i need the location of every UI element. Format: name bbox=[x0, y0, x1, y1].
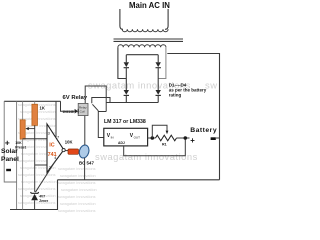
label 1K bbox=[40, 106, 45, 111]
wire op-amp pin 7 supply bbox=[55, 101, 57, 138]
svg-text:R1: R1 bbox=[162, 143, 167, 147]
preset P1 lead top bbox=[22, 101, 24, 120]
ground rail main bbox=[58, 179, 220, 181]
diode 1N4148 bbox=[75, 109, 79, 114]
wire op-amp pin 4 to ground bbox=[35, 160, 56, 192]
svg-text:swagatam innovation: swagatam innovation bbox=[20, 194, 56, 198]
svg-text:BC 547: BC 547 bbox=[79, 161, 94, 166]
op-amp U1 741 bbox=[47, 124, 64, 173]
wire op-amp pin 2 to zener bbox=[35, 164, 47, 166]
regulator U2 LM317 bbox=[104, 128, 148, 146]
svg-text:1N4148: 1N4148 bbox=[63, 110, 74, 114]
wire battery minus stub bbox=[215, 137, 220, 139]
wire bridge right column bbox=[157, 68, 159, 90]
wire bridge left column bbox=[125, 68, 127, 90]
svg-text:Zener: Zener bbox=[39, 199, 49, 203]
ground rail bottom-left bbox=[10, 180, 58, 210]
label D1-D4 bbox=[169, 82, 207, 97]
relay coil RL1 bbox=[78, 103, 88, 115]
wire R1 to battery plus bbox=[177, 137, 190, 139]
label 6V Relay bbox=[63, 95, 88, 101]
svg-text:swagatam innovation: swagatam innovation bbox=[21, 124, 57, 128]
wire bridge negative to battery minus bbox=[167, 54, 219, 180]
svg-text:ADJ: ADJ bbox=[118, 141, 125, 145]
wire emitter bbox=[84, 158, 86, 180]
wire panel minus down bbox=[16, 182, 18, 210]
node Vout junction bbox=[151, 136, 155, 140]
watermark mini block left bbox=[18, 103, 57, 205]
svg-text:Battery: Battery bbox=[190, 127, 217, 134]
label BC 547 bbox=[79, 161, 94, 166]
wire relay coil top loop bbox=[85, 86, 106, 112]
label Battery bbox=[190, 127, 217, 134]
transformer T1 secondary winding bbox=[118, 45, 166, 47]
svg-text:swagatam innovations: swagatam innovations bbox=[18, 173, 56, 177]
svg-text:swagatam innovations: swagatam innovations bbox=[58, 181, 96, 185]
diode D3 bbox=[124, 90, 129, 95]
wire secondary right to bridge AC node bbox=[158, 47, 166, 78]
potentiometer R1 bbox=[152, 125, 176, 141]
solar positive rail bbox=[4, 100, 60, 102]
svg-text:swagatam innovation: swagatam innovation bbox=[21, 180, 57, 184]
svg-text:Main AC IN: Main AC IN bbox=[129, 1, 170, 10]
preset P1 lead bottom bbox=[22, 139, 24, 209]
watermark row A bbox=[88, 80, 217, 91]
diode D1 bbox=[124, 62, 129, 67]
svg-text:swagatam innovation: swagatam innovation bbox=[60, 174, 96, 178]
svg-text:swagatam innovations: swagatam innovations bbox=[58, 167, 96, 171]
wire to op-amp pin 3 bbox=[23, 138, 47, 140]
watermark row B bbox=[95, 151, 198, 162]
svg-text:swagatam innovation: swagatam innovation bbox=[61, 188, 97, 192]
label 4V7 Zener bbox=[39, 195, 49, 203]
wire secondary left to bridge AC node bbox=[118, 47, 126, 78]
bridge top rail bbox=[126, 55, 158, 63]
wire relay pole to Vin bbox=[98, 111, 106, 138]
diode D4 bbox=[156, 90, 161, 95]
svg-text:+: + bbox=[190, 136, 195, 145]
label Main AC IN bbox=[129, 1, 170, 10]
resistor 1K body bbox=[32, 101, 38, 125]
watermark mini block center-bottom bbox=[58, 167, 97, 213]
op-amp output node bbox=[62, 149, 68, 152]
transformer T1 primary leads bbox=[120, 9, 168, 29]
diode D2 bbox=[156, 62, 161, 67]
label LM 317 or LM338 bbox=[104, 119, 146, 125]
svg-text:sw: sw bbox=[205, 80, 217, 91]
node battery plus junction bbox=[184, 136, 188, 140]
relay contact arm bbox=[92, 104, 98, 111]
svg-text:Coil: Coil bbox=[80, 110, 86, 114]
svg-text:1K: 1K bbox=[40, 106, 45, 111]
svg-text:Preset: Preset bbox=[15, 146, 27, 150]
transistor Q1 BC547 bbox=[78, 144, 91, 159]
svg-text:rating: rating bbox=[169, 93, 182, 98]
wire collector bbox=[84, 116, 86, 145]
label battery minus bbox=[211, 137, 216, 140]
svg-text:swagatam innovations: swagatam innovations bbox=[18, 201, 56, 205]
wire solar rail to coil bbox=[61, 101, 75, 111]
svg-text:10K: 10K bbox=[65, 139, 73, 144]
label 10K Preset bbox=[15, 141, 27, 150]
transformer T1 primary winding bbox=[122, 29, 168, 32]
solar panel bbox=[4, 101, 16, 182]
label 10K bbox=[65, 139, 73, 144]
wire Vout bbox=[148, 137, 156, 139]
svg-text:swagatam innovations: swagatam innovations bbox=[58, 195, 96, 199]
preset wiper arrow bbox=[25, 127, 34, 130]
bridge bottom rail bbox=[106, 95, 158, 102]
resistor 1K lead bbox=[34, 125, 36, 191]
svg-text:10K: 10K bbox=[15, 141, 22, 145]
svg-text:IN: IN bbox=[111, 136, 114, 140]
svg-text:D1----D4: D1----D4 bbox=[169, 82, 187, 87]
svg-text:+: + bbox=[5, 137, 10, 147]
label 1N4148 bbox=[63, 110, 74, 114]
label R1 bbox=[162, 143, 167, 147]
svg-text:swagatam innovations: swagatam innovations bbox=[58, 209, 96, 213]
zener diode 4V7 bbox=[31, 192, 39, 209]
svg-text:swagatam innovation: swagatam innovation bbox=[60, 202, 96, 206]
svg-text:OUT: OUT bbox=[134, 136, 141, 140]
svg-text:IC: IC bbox=[49, 143, 54, 149]
resistor 10K base bbox=[68, 149, 79, 154]
wire ADJ feedback bbox=[124, 140, 186, 156]
svg-text:Panel: Panel bbox=[1, 156, 19, 163]
transformer T1 core bbox=[114, 39, 184, 41]
svg-text:6V Relay: 6V Relay bbox=[63, 95, 88, 101]
label battery plus bbox=[190, 136, 195, 145]
wire relay NO contact to bridge positive bbox=[92, 98, 110, 104]
preset P1 10K body bbox=[20, 120, 25, 139]
label solar panel bbox=[1, 137, 19, 171]
svg-text:LM 317 or LM338: LM 317 or LM338 bbox=[104, 119, 146, 125]
